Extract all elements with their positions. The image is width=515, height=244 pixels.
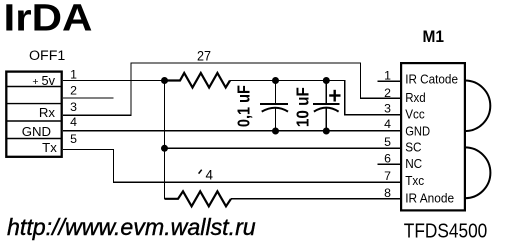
IC U1 TFDS4500 body bbox=[401, 63, 465, 210]
resistor R1 27 zigzag bbox=[165, 73, 231, 88]
svg-text:2: 2 bbox=[384, 86, 391, 100]
svg-text:IR Anode: IR Anode bbox=[405, 190, 454, 205]
svg-text:10 uF: 10 uF bbox=[292, 87, 312, 127]
svg-text:4: 4 bbox=[384, 117, 391, 131]
svg-text:Tx: Tx bbox=[42, 140, 57, 155]
wire +5v row1 to junction bbox=[63, 80, 165, 82]
wire capacitor C1 bottom lead bbox=[275, 109, 277, 132]
junction node C1 top bbox=[272, 77, 279, 84]
wire pin6 stub bbox=[378, 163, 402, 165]
wire Tx row5 down and across to Txc bbox=[63, 150, 401, 183]
wire row2 stub bbox=[63, 97, 114, 99]
svg-text:GND: GND bbox=[405, 123, 430, 138]
svg-text:GND: GND bbox=[22, 124, 51, 139]
capacitor C1 0,1uF plates bbox=[260, 104, 288, 112]
svg-text:2: 2 bbox=[70, 84, 77, 98]
wire capacitor C2 top lead bbox=[325, 81, 327, 105]
svg-text:Vcc: Vcc bbox=[405, 106, 425, 121]
wire capacitor C2 bottom lead bbox=[325, 109, 327, 132]
svg-text:0,1 uF: 0,1 uF bbox=[234, 85, 254, 127]
svg-text:3: 3 bbox=[70, 100, 77, 114]
wire Rx row3 up and across to Rxd bbox=[63, 63, 401, 115]
svg-text:1: 1 bbox=[384, 68, 391, 82]
wire capacitor C1 top lead bbox=[275, 81, 277, 105]
resistor R2 4 zigzag bbox=[165, 191, 232, 206]
svg-text:4: 4 bbox=[206, 168, 214, 183]
svg-text:http://www.evm.wallst.ru: http://www.evm.wallst.ru bbox=[7, 214, 256, 240]
svg-text:4: 4 bbox=[70, 115, 77, 129]
junction node C2 bottom bbox=[323, 128, 330, 135]
junction node rail top bbox=[161, 77, 168, 84]
wire resistor R2 output to IR Anode pin8 bbox=[231, 198, 401, 200]
wire SC from rail to pin5 bbox=[164, 147, 401, 149]
wire pin1 stub bbox=[378, 80, 402, 82]
svg-text:+ 5v: + 5v bbox=[32, 73, 55, 88]
svg-text:IrDA: IrDA bbox=[4, 0, 93, 39]
svg-text:1: 1 bbox=[70, 68, 77, 82]
svg-text:TFDS4500: TFDS4500 bbox=[404, 221, 488, 243]
wire resistor R1 output to caps and Vcc pin3 bbox=[230, 81, 401, 115]
svg-text:OFF1: OFF1 bbox=[29, 48, 65, 64]
connector OFF1 body bbox=[6, 72, 61, 157]
svg-text:3: 3 bbox=[384, 101, 391, 115]
svg-text:7: 7 bbox=[384, 169, 391, 183]
svg-text:6: 6 bbox=[384, 152, 391, 166]
capacitor C2 10uF plates bbox=[313, 104, 340, 112]
IC lens bump bottom bbox=[465, 147, 490, 198]
svg-text:Rx: Rx bbox=[39, 105, 56, 120]
wire +5v rail vertical bbox=[164, 81, 166, 199]
svg-text:8: 8 bbox=[384, 186, 391, 200]
IC lens bump top bbox=[465, 81, 490, 132]
capacitor C2 polarity + bbox=[329, 90, 340, 102]
svg-text:5: 5 bbox=[384, 135, 391, 149]
junction node SC tap bbox=[161, 145, 168, 152]
svg-text:5: 5 bbox=[70, 132, 77, 146]
svg-text:Rxd: Rxd bbox=[405, 90, 426, 105]
junction node C1 bottom bbox=[272, 128, 279, 135]
svg-text:M1: M1 bbox=[423, 27, 445, 46]
wire GND row4 to pin4 bbox=[63, 130, 401, 132]
svg-text:Txc: Txc bbox=[405, 173, 424, 188]
resistor R2 value tick bbox=[199, 170, 202, 174]
svg-text:27: 27 bbox=[197, 49, 211, 64]
junction node C2 top bbox=[323, 77, 330, 84]
svg-text:SC: SC bbox=[405, 140, 421, 155]
svg-text:NC: NC bbox=[405, 156, 422, 171]
svg-text:IR Catode: IR Catode bbox=[405, 71, 458, 86]
